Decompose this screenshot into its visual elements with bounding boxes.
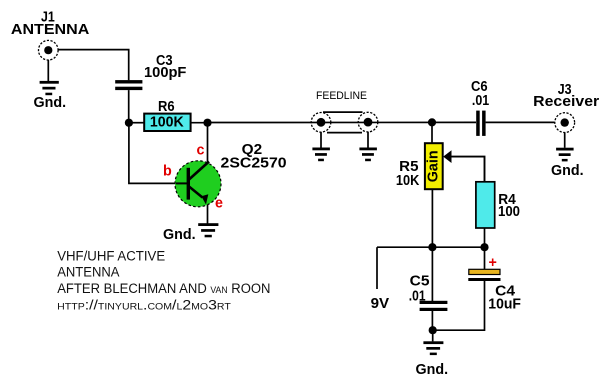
wire node A to R6 [129,122,144,124]
node D junction [428,243,436,251]
wire feedline right ground [367,132,369,148]
svg-text:Receiver: Receiver [533,94,599,110]
wire node A to base [129,123,176,184]
wire R4 to node E [484,228,486,247]
svg-text:100: 100 [498,204,520,220]
wire node E to C4 [484,247,486,269]
svg-text:Gnd.: Gnd. [416,362,449,378]
feedline bottom line [327,132,362,134]
supply bus wire [377,246,485,248]
connector J1 [39,40,59,60]
svg-text:Gnd.: Gnd. [163,227,196,243]
node B junction [203,119,211,127]
capacitor C4 negative plate [468,278,500,281]
potentiometer R5 Gain [425,143,443,189]
connector J3 [555,113,575,133]
svg-text:Gnd.: Gnd. [551,163,584,179]
capacitor C6 [476,111,485,136]
wire C4 to node F [432,281,484,330]
wire R5 to node D [431,189,433,247]
wire emitter to ground [207,205,209,224]
svg-text:b: b [163,164,172,180]
wire node B to node C [208,121,477,123]
wire C6 to J3 [486,121,555,123]
ground under feedline right [359,148,377,162]
capacitor C4 positive plate [469,269,500,274]
svg-text:R6: R6 [158,99,175,115]
ground under feedline left [312,148,330,162]
svg-text:.01: .01 [472,93,489,109]
wire node D to C5 [431,247,433,301]
wire feedline left ground [320,132,322,148]
wire C3 to node A [128,90,130,122]
svg-text:VHF/UHF ACTIVE: VHF/UHF ACTIVE [57,249,165,264]
svg-text:10uF: 10uF [488,297,521,313]
ground under Q2 [198,223,218,237]
ground under J3 [556,148,574,162]
wire node B to collector [207,123,209,163]
node F junction [429,326,437,334]
svg-text:c: c [197,143,205,159]
svg-text:9V: 9V [371,296,390,312]
svg-text:ANTENNA: ANTENNA [11,22,89,38]
node A junction [125,119,133,127]
wire C5 to node F [431,311,433,330]
resistor R6 [144,114,190,131]
wire J3 to ground [564,133,566,148]
transistor Q2 [175,161,221,207]
wire node C to R5 [431,122,433,143]
wiper arrow R5 [443,150,484,181]
feedline connector right [358,112,378,132]
node E junction [480,243,488,251]
wire node F to ground [432,330,434,341]
svg-text:http://tinyurl.com/l2mo3rt: http://tinyurl.com/l2mo3rt [57,297,231,312]
wire 9V [376,247,378,289]
feedline top line [323,111,363,113]
svg-text:ANTENNA: ANTENNA [57,265,119,280]
node C junction [428,118,436,126]
svg-text:Gnd.: Gnd. [34,95,67,111]
wire J1 to ground [47,60,49,81]
svg-text:+: + [489,255,497,271]
svg-text:Gain: Gain [426,150,442,182]
resistor R4 [476,182,495,228]
capacitor C3 [115,80,142,90]
svg-text:FEEDLINE: FEEDLINE [316,90,367,102]
ground bottom [423,341,443,355]
capacitor C5 [420,301,448,311]
svg-text:AFTER BLECHMAN AND van ROON: AFTER BLECHMAN AND van ROON [57,281,270,296]
svg-text:100K: 100K [150,115,184,131]
svg-text:10K: 10K [396,173,420,189]
svg-text:e: e [215,196,223,212]
feedline connector left [311,113,331,133]
svg-text:2SC2570: 2SC2570 [221,156,287,172]
svg-text:100pF: 100pF [144,65,187,81]
wire R6 to node B [191,122,208,124]
wire J1 to C3 [58,50,129,81]
svg-text:C5: C5 [410,274,430,290]
ground under J1 [40,81,59,95]
